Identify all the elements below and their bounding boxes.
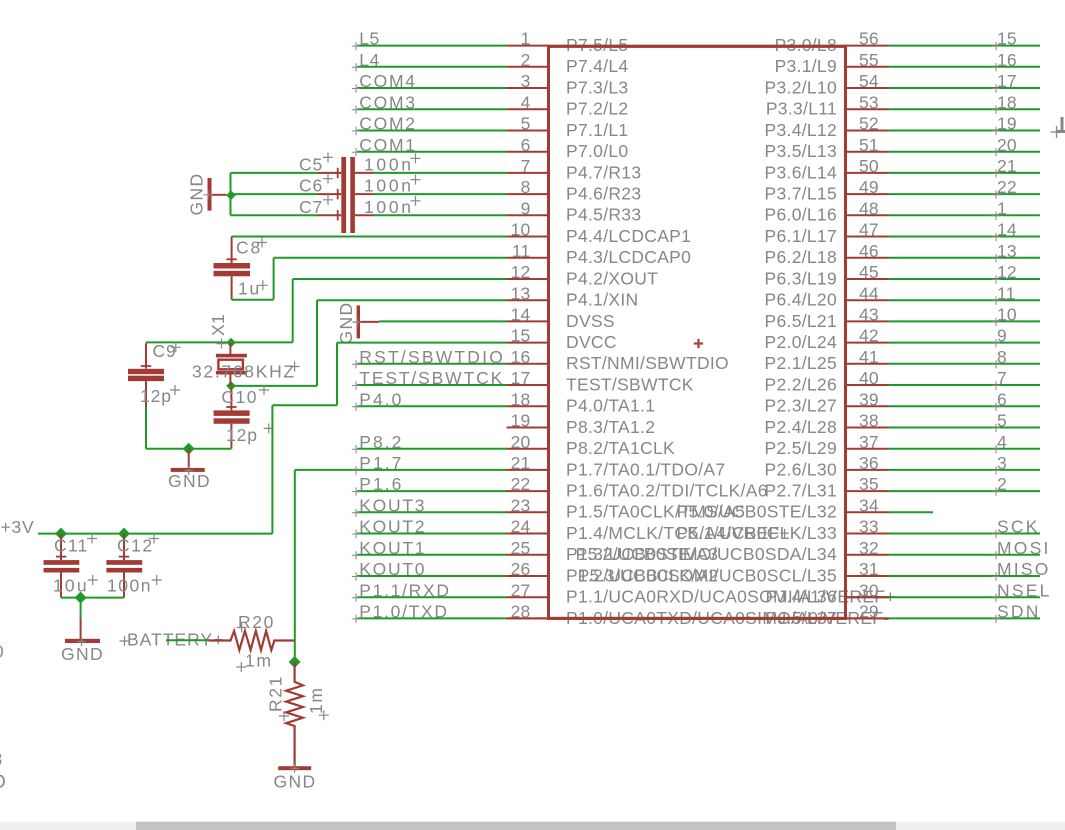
junction C5-C7 GND [226,190,236,200]
pin 9 stub (left) [507,214,549,216]
wire C9 bottom [145,407,147,449]
pin 12 stub (left) [507,278,549,280]
wire net KOUT1 (left row 25) [357,554,507,556]
svg-text:TEST/SBWTCK: TEST/SBWTCK [566,374,694,394]
pin 4 stub (left) [507,108,549,110]
pin 20 stub (left) [507,448,549,450]
svg-text:100n: 100n [107,576,152,596]
net label COM4 origin cross [352,84,360,92]
pin 34 stub (right) [846,511,890,513]
pin 30 stub (right) [846,596,890,598]
ground GND (DVSS) [357,305,360,338]
net label MOSI origin cross [992,551,1000,559]
wire net 16 (right row 2) [889,66,1040,68]
svg-text:55: 55 [859,50,879,70]
capacitor C6 polarity tick [337,189,339,199]
pin 48 stub (right) [846,214,890,216]
wire net KOUT2 (left row 24) [357,533,507,535]
wire net 20 (right row 6) [889,151,1040,153]
svg-text:23: 23 [511,495,531,515]
svg-text:P4.2/XOUT: P4.2/XOUT [566,268,658,288]
svg-text:10: 10 [511,220,531,240]
svg-text:COM2: COM2 [359,114,416,134]
wire net 11 (right row 13) [889,299,1040,301]
net label SCK origin cross [992,530,1000,538]
svg-text:GND: GND [61,644,104,664]
svg-text:NSEL: NSEL [997,580,1052,600]
svg-text:27: 27 [511,580,531,600]
net label BATTERY+ origin cross [120,636,130,646]
ground GND (crystal) [188,449,190,468]
svg-text:1u: 1u [238,279,261,299]
ground GND (C5-C7) [208,178,212,211]
capacitor C6 right pin [355,193,374,195]
wire net 9 (right row 15) [889,342,1040,344]
svg-text:L5: L5 [359,29,379,49]
svg-text:15: 15 [511,326,531,346]
wire net SDN (right row 28) [889,617,1040,619]
capacitor C9 name origin cross [171,342,181,352]
svg-text:100n: 100n [364,197,414,217]
svg-text:SCK: SCK [997,517,1040,537]
wire +3V to DVCC [271,405,273,533]
wire net 3 (right row 21) [889,469,1040,471]
svg-text:P6.2/L18: P6.2/L18 [765,247,837,267]
net label KOUT2 origin cross [352,530,360,538]
svg-text:PJ.4/L36: PJ.4/L36 [766,587,837,607]
wire stub to GND [80,598,82,618]
svg-text:32: 32 [859,538,879,558]
svg-text:49: 49 [859,177,879,197]
net label TEST/SBWTCK origin cross [352,381,360,389]
net label KOUT0 origin cross [352,572,360,580]
pin 14 stub (left) [507,320,549,322]
wire P1.7 vertical [294,470,296,662]
pin 1 stub (left) [507,45,549,47]
wire net 1 (right row 9) [889,214,1040,216]
pin 16 stub (left) [507,363,549,365]
wire BATTERY+ [166,639,210,641]
svg-text:46: 46 [859,241,879,261]
wire COMcap row 7 left segment [231,172,318,174]
svg-text:P6.5/L21: P6.5/L21 [765,311,837,331]
net label MISO origin cross [992,572,1000,580]
resistor R21 [286,662,303,766]
svg-text:C5: C5 [299,155,323,175]
svg-text:P2.4/L28: P2.4/L28 [765,417,837,437]
net label P1.6 origin cross [352,487,360,495]
net label COM1 origin cross [352,148,360,156]
svg-text:R21: R21 [266,675,286,712]
partial symbol at right edge [1057,117,1065,132]
net label RST/SBWTDIO origin cross [352,360,360,368]
svg-text:33: 33 [859,517,879,537]
pin 5 stub (left) [507,130,549,132]
svg-text:52: 52 [859,114,879,134]
net label P1.7 origin cross [352,466,360,474]
pin 6 stub (left) [507,151,549,153]
pin 32 stub (right) [846,554,890,556]
svg-text:40: 40 [859,368,879,388]
capacitor C10 [230,387,232,411]
capacitor C11 value origin cross [88,575,98,585]
net label 4 origin cross [992,445,1000,453]
svg-text:DVSS: DVSS [566,311,615,331]
svg-text:14: 14 [511,305,531,325]
net label 11 origin cross [992,297,1000,305]
pin 25 stub (left) [507,554,549,556]
pin 44 stub (right) [846,299,890,301]
wire DVSS row14 [379,320,506,322]
wire net 22 (right row 8) [889,193,1040,195]
net label 13 origin cross [992,254,1000,262]
net label 2 origin cross [992,487,1000,495]
svg-text:21: 21 [511,453,531,473]
junction +3V C12 [118,528,130,540]
wire crystal bottom rail [231,385,317,387]
svg-text:C12: C12 [117,536,154,556]
wire C8 bottom to pin11 [232,299,274,301]
pin 30 stub overlay [846,596,890,598]
wire net 19 (right row 5) [889,130,1040,132]
svg-text:P4.4/LCDCAP1: P4.4/LCDCAP1 [566,226,691,246]
pin 17 stub (left) [507,384,549,386]
wire net MOSI (right row 25) [889,554,1040,556]
svg-text:P1.6: P1.6 [359,474,403,494]
wire net COM2 (left row 5) [357,130,507,132]
pin 42 stub (right) [846,342,890,344]
pin 31 stub (right) [846,575,890,577]
svg-text:C11: C11 [54,536,88,556]
net label 20 origin cross [992,148,1000,156]
svg-text:P8.3/TA1.2: P8.3/TA1.2 [566,417,655,437]
wire C9-C10 bottom rail [146,448,231,450]
capacitor C6 name origin cross [323,174,333,184]
scrollbar track [0,822,1065,830]
capacitor C10 value origin cross [264,423,274,433]
pin 13 stub (left) [507,299,549,301]
svg-text:9: 9 [521,198,531,218]
junction R20-R21 [289,656,301,668]
wire net L4 (left row 2) [357,66,507,68]
wire +3V rail [38,533,272,535]
svg-text:38: 38 [859,411,879,431]
svg-text:P4.7/R13: P4.7/R13 [566,162,641,182]
svg-text:43: 43 [859,305,879,325]
svg-text:C9: C9 [153,341,177,361]
IC U1 microcontroller body [549,46,846,618]
svg-text:P4.0: P4.0 [359,389,403,409]
wire net 2 (right row 22) [889,490,1040,492]
crystal X1 [229,343,231,354]
svg-text:GND: GND [274,772,317,792]
svg-text:P2.6/L30: P2.6/L30 [765,459,837,479]
svg-text:P5.0/UCB0STE/L32: P5.0/UCB0STE/L32 [677,502,837,522]
pin 46 stub (right) [846,257,890,259]
svg-text:12: 12 [511,262,531,282]
pin 23 stub (left) [507,511,549,513]
svg-text:C6: C6 [299,176,323,196]
pin 39 stub (right) [846,405,890,407]
wire net P1.1/RXD (left row 27) [357,596,507,598]
net label 1 origin cross [992,212,1000,220]
wire 100n cap row 9 right segment [374,214,507,216]
svg-text:GND: GND [187,172,207,215]
wire net 18 (right row 4) [889,108,1040,110]
pin 29 stub overlay [846,617,890,619]
svg-text:12p: 12p [140,386,172,406]
junction crystal top [226,338,236,348]
net label L4 origin cross [352,63,360,71]
svg-text:56: 56 [859,29,879,49]
wire net 13 (right row 11) [889,257,1040,259]
pin 8 stub (left) [507,193,549,195]
pin 28 stub overlay [507,617,549,619]
svg-text:P3.4/L12: P3.4/L12 [765,120,837,140]
svg-text:100n: 100n [364,155,414,175]
svg-text:COM3: COM3 [359,92,416,112]
svg-text:P3.5/L13: P3.5/L13 [765,141,837,161]
pin 27 stub (left) [507,596,549,598]
svg-text:48: 48 [859,198,879,218]
wire net COM1 (left row 6) [357,151,507,153]
svg-text:C10: C10 [221,387,258,407]
wire net P8.2 (left row 20) [357,448,507,450]
wire net P1.7 (left row 21) [295,469,507,471]
scrollbar thumb [136,822,896,830]
svg-text:20: 20 [511,432,531,452]
pin 53 stub (right) [846,108,890,110]
pin 49 stub (right) [846,193,890,195]
svg-text:P7.4/L4: P7.4/L4 [566,56,628,76]
svg-text:RST/SBWTDIO: RST/SBWTDIO [359,347,505,367]
svg-text:P1.7: P1.7 [359,453,403,473]
capacitor C5 name origin cross [323,152,333,162]
svg-text:P2.2/L26: P2.2/L26 [765,374,837,394]
pin 45 stub (right) [846,278,890,280]
svg-text:L4: L4 [359,50,379,70]
wire net 17 (right row 3) [889,87,1040,89]
net label SDN origin cross [992,615,1000,623]
wire net SCK (right row 24) [889,533,1040,535]
wire pin 34 (short, unlabeled) [889,511,933,513]
svg-text:P5.2/UCB0SIMO/UCB0SDA/L34: P5.2/UCB0SIMO/UCB0SDA/L34 [576,544,837,564]
pin 51 stub (right) [846,151,890,153]
svg-text:MISO: MISO [997,559,1051,579]
svg-text:P3.7/L15: P3.7/L15 [765,184,837,204]
pin 22 stub (left) [507,490,549,492]
wire net NSEL (right row 27) [889,596,1040,598]
net label 6 origin cross [992,403,1000,411]
wire C11-C12 bottom rail [61,597,124,599]
svg-text:P1.1/RXD: P1.1/RXD [359,580,450,600]
capacitor C7 polarity tick [337,210,339,220]
pin 35 stub (right) [846,490,890,492]
junction C11-C12 GND [75,592,87,604]
capacitor C9 [145,343,147,368]
capacitor C6 value origin cross [411,175,421,185]
svg-text:1m: 1m [306,686,326,714]
svg-text:P6.4/L20: P6.4/L20 [765,290,837,310]
svg-text:C7: C7 [299,197,323,217]
svg-text:COM1: COM1 [359,135,416,155]
svg-text:P3.3/L11: P3.3/L11 [766,99,837,119]
pin 43 stub (right) [846,320,890,322]
svg-text:+3V: +3V [1,517,35,537]
pin 40 stub (right) [846,384,890,386]
capacitor C5 left pin [318,172,342,174]
svg-text:11: 11 [512,241,531,261]
svg-text:34: 34 [859,495,879,515]
net label 14 origin cross [992,233,1000,241]
svg-text:45: 45 [859,262,879,282]
net label 22 origin cross [992,190,1000,198]
capacitor C12 name origin cross [149,534,159,544]
net label P8.2 origin cross [352,445,360,453]
pin 36 stub (right) [846,469,890,471]
wire net 12 (right row 12) [889,278,1040,280]
net label 9 origin cross [992,339,1000,347]
wire net 4 (right row 20) [889,448,1040,450]
wire net P1.0/TXD (left row 28) [357,617,507,619]
svg-text:KOUT1: KOUT1 [359,538,426,558]
capacitor C8 [231,237,233,264]
net label KOUT1 origin cross [352,551,360,559]
capacitor C11 [60,534,62,560]
svg-text:P7.1/L1: P7.1/L1 [566,120,628,140]
pin 38 stub (right) [846,427,890,429]
svg-text:GND: GND [336,301,356,344]
svg-text:P7.3/L3: P7.3/L3 [566,77,628,97]
svg-text:37: 37 [859,432,879,452]
pin 55 stub (right) [846,66,890,68]
svg-text:C8: C8 [236,238,262,258]
net label 21 origin cross [992,169,1000,177]
wire net COM4 (left row 3) [357,87,507,89]
ground GND (C11-C12) [80,618,82,639]
svg-text:19: 19 [511,411,531,431]
svg-text:35: 35 [859,474,879,494]
resistor R20 name origin cross [237,623,247,633]
wire XOUT row12 [293,278,507,280]
svg-text:RST/NMI/SBWTDIO: RST/NMI/SBWTDIO [566,353,729,373]
wire net KOUT0 (left row 26) [357,575,507,577]
net label COM2 origin cross [352,127,360,135]
capacitor C11 name origin cross [87,534,97,544]
capacitor C9 value origin cross [170,385,180,395]
net label 18 origin cross [992,106,1000,114]
svg-text:P4.1/XIN: P4.1/XIN [566,290,638,310]
svg-text:P5.1/UCB0CLK/L33: P5.1/UCB0CLK/L33 [677,523,837,543]
resistor R21 value origin cross [319,710,329,720]
svg-text:COM4: COM4 [359,71,416,91]
net label 19 origin cross [992,127,1000,135]
IC bottom border overlay [549,617,846,620]
svg-text:25: 25 [511,538,531,558]
svg-text:39: 39 [859,389,879,409]
svg-text:SDN: SDN [997,602,1041,622]
svg-text:4: 4 [521,92,531,112]
svg-text:DVCC: DVCC [566,332,617,352]
resistor R20 [209,631,295,650]
svg-text:36: 36 [859,453,879,473]
net label NSEL origin cross [992,594,1000,602]
svg-text:R20: R20 [238,612,275,632]
net label KOUT3 origin cross [352,509,360,517]
svg-text:O: O [0,772,6,793]
svg-text:P6.3/L19: P6.3/L19 [765,268,837,288]
pin 15 stub (left) [507,342,549,344]
capacitor C12 value origin cross [152,575,162,585]
net label 15 origin cross [992,42,1000,50]
svg-text:18: 18 [511,389,531,409]
svg-text:1: 1 [521,29,531,49]
pin 28 stub (left) [507,617,549,619]
wire net L5 (left row 1) [357,45,507,47]
svg-text:7: 7 [521,156,531,176]
svg-text:P2.5/L29: P2.5/L29 [765,438,837,458]
net label 7 origin cross [992,381,1000,389]
net label 17 origin cross [992,84,1000,92]
pin 11 stub (left) [507,257,549,259]
net label 16 origin cross [992,63,1000,71]
wire net KOUT3 (left row 23) [357,511,507,513]
pin 52 stub (right) [846,130,890,132]
svg-text:P1.0/TXD: P1.0/TXD [359,602,448,622]
svg-text:53: 53 [859,92,879,112]
svg-text:41: 41 [859,347,879,367]
svg-text:31: 31 [859,559,879,579]
svg-text:P4.3/LCDCAP0: P4.3/LCDCAP0 [566,247,691,267]
svg-text:P1.7/TA0.1/TDO/A7: P1.7/TA0.1/TDO/A7 [566,459,725,479]
svg-text:12p: 12p [226,425,258,445]
pin 19 stub (left) [507,427,549,429]
svg-text:32.768KHZ: 32.768KHZ [192,362,296,382]
svg-text:6: 6 [521,135,531,155]
svg-text:MOSI: MOSI [997,538,1051,558]
svg-text:1m: 1m [245,651,273,671]
wire net RST/SBWTDIO (left row 16) [357,363,507,365]
svg-text:P2.3/L27: P2.3/L27 [765,396,837,416]
net label 10 origin cross [992,318,1000,326]
wire COMcap row 8 left segment [231,193,318,195]
capacitor C12 [123,534,125,560]
svg-text:P4.0/TA1.1: P4.0/TA1.1 [566,396,655,416]
pin 37 stub (right) [846,448,890,450]
crystal X1 origin cross [217,339,227,349]
pin 54 stub (right) [846,87,890,89]
svg-text:P2.1/L25: P2.1/L25 [765,353,837,373]
pin 3 stub (left) [507,87,549,89]
resistor R21 name origin cross [279,711,289,721]
capacitor C7 value origin cross [411,196,421,206]
svg-text:54: 54 [859,71,879,91]
wire XIN row13 [317,299,507,301]
svg-text:P7.2/L2: P7.2/L2 [566,99,628,119]
resistor R20 value origin cross [236,662,246,672]
wire net 15 (right row 1) [889,45,1040,47]
svg-text:P7.0/L0: P7.0/L0 [566,141,628,161]
net label 5 origin cross [992,424,1000,432]
svg-text:KOUT2: KOUT2 [359,517,426,537]
svg-text:2: 2 [521,50,531,70]
svg-text:P3.6/L14: P3.6/L14 [765,162,837,182]
wire net 7 (right row 17) [889,384,1040,386]
wire crystal top rail [146,341,293,343]
svg-text:X1: X1 [208,314,228,336]
capacitor C5 value origin cross [411,153,421,163]
svg-text:P6.1/L17: P6.1/L17 [765,226,837,246]
